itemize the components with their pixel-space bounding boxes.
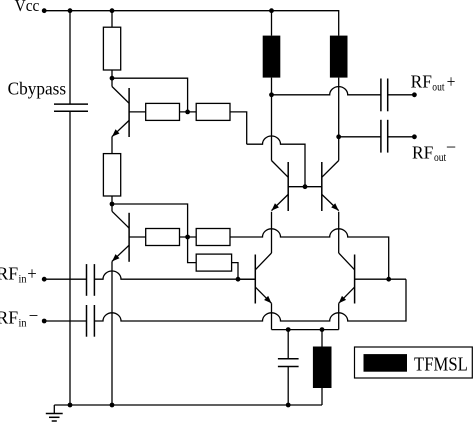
svg-text:−: − bbox=[446, 137, 456, 157]
svg-text:−: − bbox=[29, 306, 39, 326]
svg-text:in: in bbox=[19, 315, 27, 329]
svg-text:+: + bbox=[27, 264, 37, 284]
svg-text:out: out bbox=[434, 150, 447, 164]
svg-text:RF: RF bbox=[412, 142, 433, 162]
svg-text:RF: RF bbox=[0, 264, 18, 284]
svg-text:Cbypass: Cbypass bbox=[8, 78, 67, 98]
svg-text:RF: RF bbox=[0, 308, 18, 328]
svg-text:out: out bbox=[432, 79, 445, 93]
svg-text:RF: RF bbox=[411, 72, 432, 92]
svg-text:Vcc: Vcc bbox=[15, 0, 40, 15]
svg-text:+: + bbox=[447, 72, 456, 92]
svg-text:in: in bbox=[19, 271, 27, 285]
svg-text:TFMSL: TFMSL bbox=[414, 353, 468, 375]
